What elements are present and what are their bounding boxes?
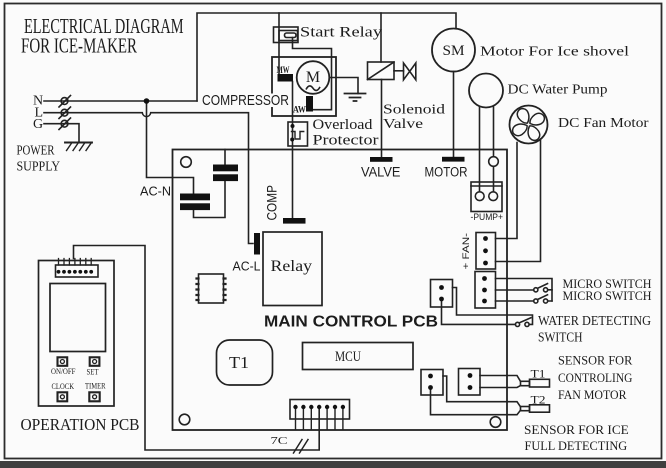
svg-text:T2: T2 bbox=[531, 395, 546, 407]
svg-text:TIMER: TIMER bbox=[85, 381, 106, 391]
svg-text:SENSOR FOR ICE: SENSOR FOR ICE bbox=[524, 422, 629, 437]
svg-text:FULL DETECTING: FULL DETECTING bbox=[525, 438, 628, 453]
svg-text:SET: SET bbox=[87, 368, 99, 377]
svg-text:Overload: Overload bbox=[313, 117, 374, 133]
svg-text:7C: 7C bbox=[271, 436, 288, 447]
svg-text:AW: AW bbox=[293, 106, 306, 116]
svg-text:T1: T1 bbox=[229, 353, 249, 372]
svg-text:+ FAN-: + FAN- bbox=[461, 233, 472, 270]
svg-text:MW: MW bbox=[277, 66, 290, 76]
svg-text:AC-N: AC-N bbox=[140, 185, 171, 199]
svg-text:Valve: Valve bbox=[383, 117, 423, 132]
svg-text:MOTOR: MOTOR bbox=[425, 164, 468, 179]
svg-text:Solenoid: Solenoid bbox=[383, 103, 445, 118]
svg-text:T1: T1 bbox=[531, 369, 546, 381]
svg-text:SWITCH: SWITCH bbox=[538, 330, 583, 345]
svg-text:FOR ICE-MAKER: FOR ICE-MAKER bbox=[21, 34, 138, 58]
svg-text:-PUMP+: -PUMP+ bbox=[471, 212, 504, 223]
svg-text:CONTROLING: CONTROLING bbox=[558, 370, 632, 385]
svg-text:COMPRESSOR: COMPRESSOR bbox=[202, 93, 289, 109]
svg-text:Motor For Ice shovel: Motor For Ice shovel bbox=[480, 45, 629, 60]
svg-text:POWER: POWER bbox=[17, 143, 55, 158]
svg-text:WATER DETECTING: WATER DETECTING bbox=[538, 313, 651, 328]
svg-text:FAN MOTOR: FAN MOTOR bbox=[558, 387, 627, 402]
svg-text:MCU: MCU bbox=[335, 349, 361, 365]
svg-text:CLOCK: CLOCK bbox=[52, 381, 75, 391]
svg-text:ON/OFF: ON/OFF bbox=[51, 367, 76, 376]
svg-text:AC-L: AC-L bbox=[233, 260, 261, 274]
svg-text:SENSOR FOR: SENSOR FOR bbox=[558, 353, 633, 368]
svg-text:MAIN CONTROL PCB: MAIN CONTROL PCB bbox=[264, 314, 438, 331]
svg-text:M: M bbox=[306, 69, 320, 86]
svg-text:MICRO SWITCH: MICRO SWITCH bbox=[563, 288, 652, 303]
svg-text:Start Relay: Start Relay bbox=[300, 25, 383, 41]
svg-text:VALVE: VALVE bbox=[361, 164, 401, 179]
svg-text:SM: SM bbox=[443, 43, 465, 59]
svg-text:Protector: Protector bbox=[313, 133, 379, 149]
svg-text:SUPPLY: SUPPLY bbox=[17, 159, 61, 174]
svg-text:Relay: Relay bbox=[271, 258, 313, 275]
svg-text:OPERATION PCB: OPERATION PCB bbox=[21, 415, 140, 434]
svg-text:COMP: COMP bbox=[265, 185, 280, 221]
svg-text:G: G bbox=[33, 117, 43, 132]
svg-text:DC Fan Motor: DC Fan Motor bbox=[558, 116, 649, 131]
svg-text:DC Water Pump: DC Water Pump bbox=[508, 83, 608, 98]
